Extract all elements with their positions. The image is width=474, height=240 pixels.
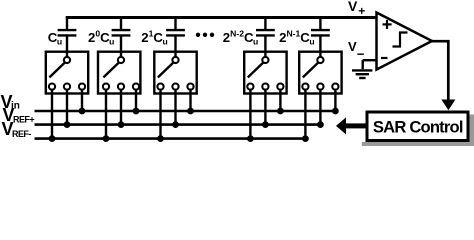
U1 hysteresis symbol	[393, 33, 408, 47]
capacitor C5	[311, 17, 330, 58]
switch S4 box	[244, 52, 286, 94]
ground	[352, 60, 372, 78]
wire S2 throw1	[105, 90, 107, 139]
junction S4 throw2	[262, 121, 269, 128]
net Vin rail	[35, 110, 336, 113]
net VREF- rail	[35, 137, 306, 140]
wire S1 throw2	[66, 90, 68, 125]
wire S3 throw1	[159, 90, 161, 139]
switch S1 common contact	[64, 57, 70, 63]
wire S2 throw2	[120, 90, 122, 125]
capacitor C2	[112, 17, 131, 58]
wire S1 throw1	[51, 90, 53, 139]
wire S4 throw1	[249, 90, 251, 139]
svg-text:SAR Control: SAR Control	[373, 118, 463, 137]
junction S4 throw3	[277, 108, 284, 115]
switch S4 common contact	[262, 57, 268, 63]
wire S5 throw3	[334, 90, 336, 111]
switch S2 wiper	[103, 63, 119, 78]
SAR control box shadow	[362, 115, 474, 147]
wire U1 output	[430, 41, 448, 100]
op-amp comparator U1	[377, 13, 433, 70]
switch S5 box	[299, 52, 341, 94]
wire S5 throw2	[319, 90, 321, 125]
switch S5 wiper	[303, 63, 319, 78]
junction S5 throw2	[317, 121, 324, 128]
junction S1 throw1	[49, 135, 56, 142]
junction S1 throw3	[79, 108, 86, 115]
ellipsis dots (repeated stages)	[196, 33, 214, 37]
switch S3 wiper	[158, 63, 174, 78]
junction S2 throw3	[133, 108, 140, 115]
capacitor C1	[58, 17, 77, 58]
arrow SAR control to switches	[336, 117, 366, 134]
junction S2 throw2	[118, 121, 125, 128]
switch S2 common contact	[118, 57, 124, 63]
net VREF+ rail	[35, 123, 321, 126]
capacitor C4	[256, 17, 275, 58]
junction S3 throw3	[187, 108, 194, 115]
U1 minus input marking	[381, 57, 388, 59]
switch S4 throw contacts	[247, 84, 283, 90]
junction S2 throw1	[103, 135, 110, 142]
switch S1 wiper	[49, 63, 65, 78]
junction S5 throw3	[332, 108, 339, 115]
U1 plus input marking	[383, 20, 392, 29]
wire top rail (summing node to comparator V+)	[66, 16, 377, 19]
junction S1 throw2	[64, 121, 71, 128]
switch S1 box	[46, 52, 88, 94]
junction S3 throw2	[172, 121, 179, 128]
wire S1 throw3	[81, 90, 83, 111]
capacitor C3	[166, 17, 185, 58]
wire V- input	[363, 59, 377, 61]
junction S3 throw1	[157, 135, 164, 142]
wire S5 throw1	[304, 90, 306, 139]
switch S2 box	[98, 52, 140, 94]
wire S3 throw3	[189, 90, 191, 111]
junction S4 throw1	[247, 135, 254, 142]
switch S1 throw contacts	[49, 84, 85, 90]
arrow into SAR control	[441, 100, 455, 111]
switch S3 throw contacts	[157, 84, 193, 90]
junction S5 throw1	[302, 135, 309, 142]
SAR control box	[367, 112, 468, 141]
switch S3 common contact	[172, 57, 178, 63]
switch S5 throw contacts	[302, 84, 338, 90]
switch S2 throw contacts	[103, 84, 139, 90]
switch S4 wiper	[248, 63, 263, 78]
wire S4 throw3	[279, 90, 281, 111]
wire S4 throw2	[264, 90, 266, 125]
wire S3 throw2	[174, 90, 176, 125]
wire S2 throw3	[135, 90, 137, 111]
switch S3 box	[154, 52, 196, 94]
switch S5 common contact	[317, 57, 323, 63]
